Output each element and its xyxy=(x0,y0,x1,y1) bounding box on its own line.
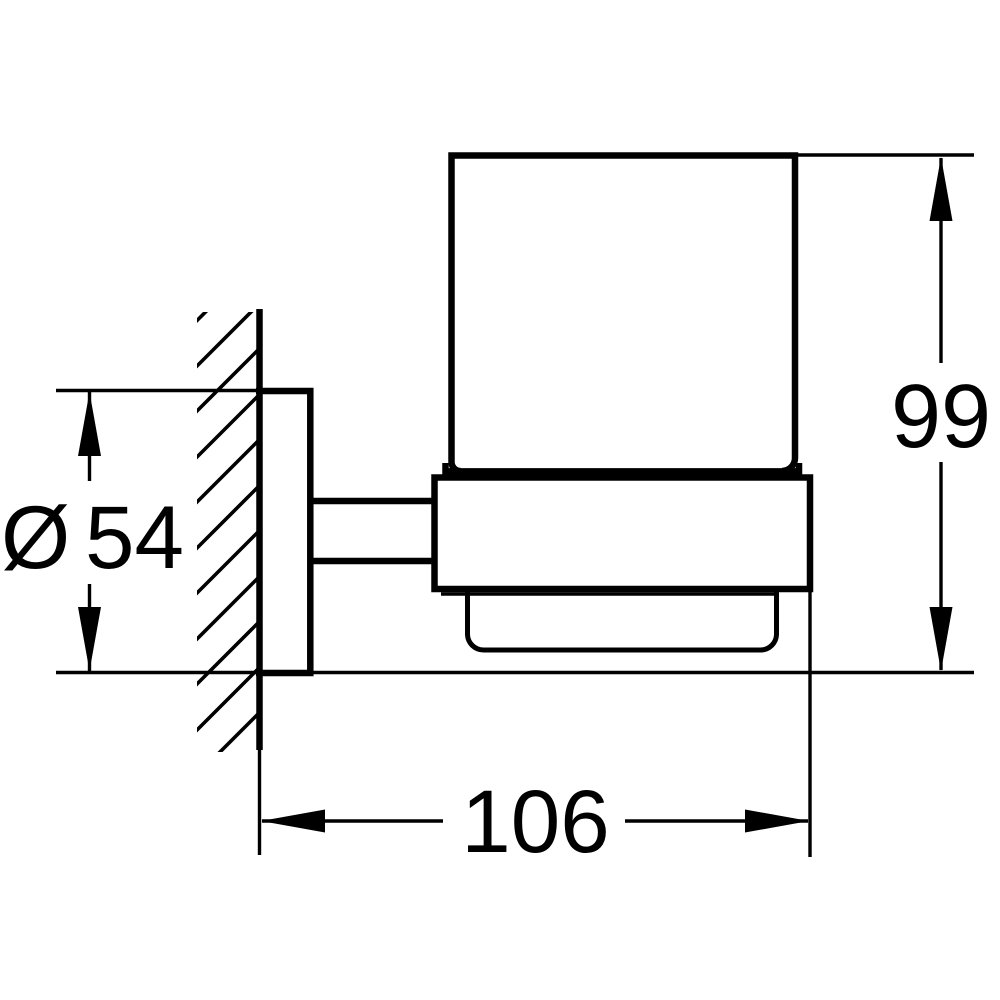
svg-text:99: 99 xyxy=(891,367,991,467)
svg-text:54: 54 xyxy=(85,487,184,587)
svg-text:106: 106 xyxy=(461,771,610,871)
svg-text:Ø: Ø xyxy=(1,487,70,587)
